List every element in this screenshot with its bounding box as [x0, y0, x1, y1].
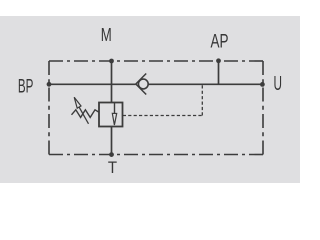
svg-text:U: U — [274, 72, 283, 95]
svg-text:T: T — [108, 158, 117, 177]
svg-text:M: M — [101, 25, 112, 45]
svg-text:BP: BP — [18, 76, 34, 98]
svg-text:AP: AP — [211, 31, 229, 53]
